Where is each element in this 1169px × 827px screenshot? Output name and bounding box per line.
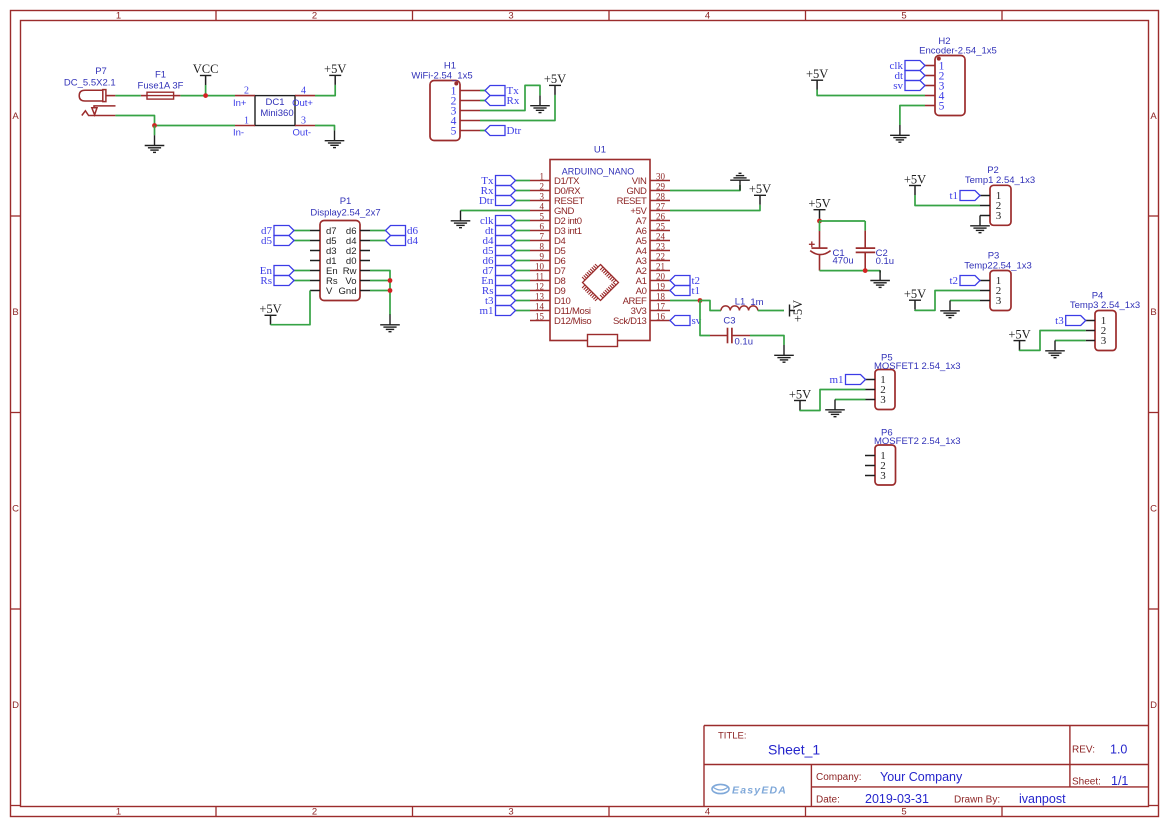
C3 lead left (710, 335, 728, 337)
net flag d7 (483, 265, 516, 277)
svg-text:Encoder-2.54_1x5: Encoder-2.54_1x5 (919, 46, 997, 57)
+5V power at P1 (259, 302, 281, 325)
junction C1 top (817, 219, 822, 224)
wire +5V to P5 pin2 (800, 390, 866, 411)
net flag clk (890, 60, 925, 72)
svg-text:m1: m1 (479, 305, 493, 317)
U1 pin 26 stub (650, 220, 670, 222)
+5V power rotated at L1 (790, 305, 796, 317)
frame tick right (1149, 412, 1159, 414)
wire d7 flag to P1 (294, 230, 310, 232)
U1 body (550, 160, 650, 341)
svg-text:0.1u: 0.1u (735, 337, 754, 348)
svg-text:2: 2 (312, 806, 317, 817)
H2 body (935, 56, 965, 116)
net flag Dtr (479, 195, 516, 207)
wire H1 pin4 to +5V (480, 95, 555, 121)
U1 pin 13 stub (530, 300, 550, 302)
wire P5 pin3 to ground (835, 399, 866, 401)
net flag m1 (829, 374, 865, 386)
U1 pin 11 stub (530, 280, 550, 282)
svg-text:+5V: +5V (791, 300, 805, 322)
svg-text:Gnd: Gnd (339, 286, 357, 297)
net flag En (481, 275, 515, 287)
P1 left pin 4 stub (310, 260, 320, 262)
svg-text:3: 3 (996, 210, 1002, 222)
wire H1 pin3 to ground (480, 85, 540, 110)
wire P4 pin3 to ground (1055, 340, 1086, 342)
net flag En (260, 265, 294, 277)
wire C1 C2 bottom (820, 270, 881, 272)
U1 pin 7 stub (530, 240, 550, 242)
net flag Dtr (485, 125, 522, 137)
U1 pin 22 stub (650, 260, 670, 262)
svg-text:VCC: VCC (193, 62, 219, 76)
H2 pin 2 stub (925, 75, 935, 77)
svg-text:Rx: Rx (507, 95, 520, 107)
F1 pin stub right (174, 95, 181, 97)
wire d6 flag to U1 (516, 260, 531, 262)
svg-text:t3: t3 (1055, 315, 1064, 327)
svg-text:+5V: +5V (806, 67, 828, 81)
P5 body (875, 370, 895, 410)
wire +5V to P1 V pin (271, 291, 311, 325)
wire C1 top lead (819, 221, 821, 231)
svg-text:10: 10 (535, 261, 545, 271)
net flag d6 (483, 255, 516, 267)
svg-text:F1: F1 (155, 70, 166, 81)
DC1 body (255, 96, 295, 126)
net flag t2 (949, 275, 980, 287)
svg-text:+5V: +5V (749, 182, 771, 196)
P6 pin 1 stub (865, 455, 875, 457)
U1 pin 6 stub (530, 230, 550, 232)
svg-text:3: 3 (508, 806, 513, 817)
F1 body (147, 92, 174, 99)
svg-text:REV:: REV: (1072, 745, 1095, 756)
svg-text:A: A (12, 111, 19, 122)
U1 pin 15 stub (530, 320, 550, 322)
svg-text:Rs: Rs (260, 275, 272, 287)
wire P7 sleeve to DC1 In- (115, 116, 235, 126)
C1 lead bottom (819, 255, 821, 271)
net flag d6 (386, 225, 419, 237)
P4 pin 3 stub (1086, 340, 1095, 342)
U1 pin 19 stub (650, 290, 670, 292)
P3 pin 3 stub (980, 300, 990, 302)
P7 switch pin (92, 106, 116, 115)
wire P7 to F1 (115, 95, 140, 97)
svg-text:+5V: +5V (1008, 327, 1030, 341)
wire C1 to C2 top (820, 220, 866, 222)
svg-text:0.1u: 0.1u (876, 256, 895, 267)
ground at H2 pin5 (890, 125, 910, 142)
H2 pin 1 stub (925, 65, 935, 67)
frame tick left (11, 608, 21, 610)
svg-text:DC_5.5X2.1: DC_5.5X2.1 (64, 78, 116, 89)
wire to ground C1C2 (879, 271, 881, 273)
+5V power at P3 (904, 287, 926, 310)
junction P1 Vo (388, 278, 393, 283)
wire F1 to DC1 In+ (180, 95, 235, 97)
wire d7 flag to U1 (516, 270, 531, 272)
svg-text:V: V (326, 286, 333, 297)
wire Tx flag to U1 (516, 180, 531, 182)
U1 pin 28 stub (650, 200, 670, 202)
svg-text:20: 20 (656, 271, 666, 281)
U1 pin 14 stub (530, 310, 550, 312)
U1 pin 24 stub (650, 240, 670, 242)
svg-text:Temp1 2.54_1x3: Temp1 2.54_1x3 (965, 175, 1035, 186)
U1 pin 18 stub (650, 300, 670, 302)
svg-text:12: 12 (535, 281, 544, 291)
svg-text:Company:: Company: (816, 772, 862, 783)
ground at U1 pin29 (flipped) (730, 173, 750, 190)
U1 pin 29 stub (650, 190, 670, 192)
wire Rs flag to P1 (294, 280, 310, 282)
wire dt flag to U1 (516, 230, 531, 232)
wire +5V to C1 node (819, 219, 821, 222)
H1 pin 3 stub (460, 110, 480, 112)
frame tick bottom (412, 807, 414, 817)
wire d5 flag to P1 (294, 240, 310, 242)
svg-text:Sheet_1: Sheet_1 (768, 742, 820, 758)
net flag d5 (483, 245, 516, 257)
frame tick top (805, 11, 807, 21)
ground at C1 C2 (870, 270, 890, 287)
svg-text:28: 28 (656, 191, 666, 201)
P1 left pin 2 stub (310, 240, 320, 242)
H2 pin 4 stub (925, 95, 935, 97)
svg-text:5: 5 (901, 10, 906, 21)
wire Rs flag to U1 (516, 290, 531, 292)
svg-text:t1: t1 (692, 285, 701, 297)
wire to ground (154, 126, 156, 136)
frame tick left (11, 805, 21, 807)
wire node down to C3 (700, 301, 710, 336)
svg-text:ivanpost: ivanpost (1019, 792, 1066, 806)
net flag sv (670, 315, 702, 327)
svg-text:4: 4 (705, 806, 710, 817)
svg-text:1: 1 (244, 115, 249, 126)
svg-text:Display2.54_2x7: Display2.54_2x7 (310, 207, 380, 218)
net flag d4 (386, 235, 419, 247)
svg-text:470u: 470u (833, 256, 854, 267)
P1 right pin stub row 7 (360, 290, 370, 292)
svg-text:DC1: DC1 (265, 97, 284, 108)
U1 pin 17 stub (650, 310, 670, 312)
svg-text:Your Company: Your Company (880, 770, 963, 784)
power flag VCC (193, 62, 219, 85)
svg-text:t2: t2 (949, 275, 958, 287)
svg-text:3: 3 (996, 295, 1002, 307)
wire P1 Rw down (370, 271, 390, 316)
svg-text:26: 26 (656, 211, 666, 221)
ground at P1 (380, 315, 400, 332)
wire +5V to H2 pin4 (817, 90, 925, 96)
svg-text:ARDUINO_NANO: ARDUINO_NANO (562, 166, 635, 176)
wire +5V to P2 pin2 (915, 195, 980, 206)
P5 pin 1 stub (866, 379, 876, 381)
title block (704, 726, 1149, 807)
wire U1 AREF to node (670, 300, 700, 302)
svg-text:D: D (12, 700, 19, 711)
C1 plus sign h (809, 243, 815, 245)
U1 pin 27 stub (650, 210, 670, 212)
P1 body (320, 221, 360, 301)
P1 right pin stub row 1 (360, 230, 370, 232)
wire t3 flag to U1 (516, 300, 531, 302)
C1 plate top (812, 247, 828, 249)
svg-text:Drawn By:: Drawn By: (954, 795, 1000, 806)
frame tick left (11, 215, 21, 217)
net flag d7 (261, 225, 294, 237)
svg-text:MOSFET2 2.54_1x3: MOSFET2 2.54_1x3 (874, 436, 961, 447)
wire P1 Vo (370, 280, 390, 282)
svg-text:C: C (12, 504, 19, 515)
ground at P2 pin3 (970, 216, 990, 233)
svg-text:22: 22 (656, 251, 665, 261)
net flag dt (485, 225, 516, 237)
EasyEDA logo (712, 784, 729, 793)
svg-text:Sheet:: Sheet: (1072, 776, 1101, 787)
P3 body (990, 271, 1011, 311)
junction GND node (152, 123, 157, 128)
svg-text:5: 5 (540, 211, 545, 221)
svg-text:2019-03-31: 2019-03-31 (865, 792, 929, 806)
H1 pin 2 stub (460, 100, 480, 102)
C3 plate left (727, 328, 729, 344)
U1 pin 2 stub (530, 190, 550, 192)
svg-text:9: 9 (540, 251, 545, 261)
P5 pin 3 stub (866, 399, 876, 401)
svg-text:Out-: Out- (293, 128, 311, 139)
wire node to L1 (700, 301, 721, 311)
C2 lead top (864, 231, 866, 248)
svg-text:2: 2 (540, 181, 545, 191)
+5V power at U1 pin27 (749, 182, 771, 205)
wire DC1 Out- to ground (315, 126, 335, 131)
svg-text:3: 3 (301, 115, 306, 126)
svg-text:C3: C3 (723, 316, 735, 327)
wire clk flag to U1 (516, 220, 531, 222)
P1 left pin 5 stub (310, 270, 320, 272)
+5V power at P2 (904, 172, 926, 195)
junction AREF node (698, 298, 703, 303)
U1 pin 23 stub (650, 250, 670, 252)
ground at U1 pin4 (451, 211, 471, 228)
H1 pin1 marker dot (454, 82, 458, 86)
svg-text:2: 2 (244, 85, 249, 96)
wire P1 to d4 flag (370, 240, 386, 242)
svg-text:1m: 1m (750, 297, 763, 308)
svg-text:3: 3 (540, 191, 545, 201)
net flag t3 (485, 295, 516, 307)
svg-text:1: 1 (116, 806, 121, 817)
wire U1 pin27 +5V (670, 205, 760, 211)
+5V power at C1 (808, 197, 830, 220)
wire C3 to ground (750, 336, 784, 346)
P2 pin 2 stub (980, 205, 990, 207)
P2 pin 1 stub (980, 195, 990, 197)
C3 lead right (732, 335, 750, 337)
wire En flag to U1 (516, 280, 531, 282)
svg-text:+5V: +5V (904, 172, 926, 186)
junction C2 bottom (863, 268, 868, 273)
svg-text:m1: m1 (829, 374, 843, 386)
frame tick top (412, 11, 414, 21)
net flag Rs (260, 275, 294, 287)
net flag Tx (485, 85, 519, 97)
wire m1 flag to U1 (516, 310, 531, 312)
svg-text:23: 23 (656, 241, 666, 251)
svg-text:+5V: +5V (789, 387, 811, 401)
frame tick top (1001, 11, 1003, 21)
svg-text:16: 16 (656, 311, 666, 321)
P1 right pin stub row 3 (360, 250, 370, 252)
svg-text:30: 30 (656, 171, 666, 181)
svg-text:1.0: 1.0 (1110, 743, 1127, 757)
svg-text:EasyEDA: EasyEDA (732, 785, 787, 797)
svg-text:MOSFET1 2.54_1x3: MOSFET1 2.54_1x3 (874, 361, 961, 372)
net flag dt (894, 70, 925, 82)
svg-text:TITLE:: TITLE: (718, 731, 747, 742)
U1 pin 16 stub (650, 320, 670, 322)
svg-text:3: 3 (880, 470, 886, 482)
frame tick bottom (215, 807, 217, 817)
frame tick right (1149, 215, 1159, 217)
svg-text:U1: U1 (594, 144, 606, 155)
ground at P5 pin3 (825, 400, 845, 417)
svg-text:P1: P1 (340, 196, 352, 207)
svg-text:4: 4 (301, 85, 306, 96)
+5V power at P4 (1008, 327, 1030, 350)
P2 pin 3 stub (980, 215, 990, 217)
C1 plus sign v (811, 241, 813, 247)
U1 pin 12 stub (530, 290, 550, 292)
U1 pin 1 stub (530, 180, 550, 182)
net flag Rx (485, 95, 520, 107)
svg-text:25: 25 (656, 221, 666, 231)
svg-text:14: 14 (535, 301, 545, 311)
+5V power at DC1 Out+ (324, 62, 346, 85)
U1 pin 9 stub (530, 260, 550, 262)
wire VCC stem (205, 85, 207, 96)
P1 right pin stub row 2 (360, 240, 370, 242)
U1 pin 5 stub (530, 220, 550, 222)
frame tick right (1149, 608, 1159, 610)
H1 pin 1 stub (460, 90, 480, 92)
svg-text:C: C (1150, 504, 1157, 515)
U1 pin 3 stub (530, 200, 550, 202)
net flag d5 (261, 235, 294, 247)
svg-text:29: 29 (656, 181, 666, 191)
svg-text:1/1: 1/1 (1111, 774, 1128, 788)
svg-text:5: 5 (451, 125, 457, 137)
ground at C3 (774, 345, 794, 362)
svg-text:B: B (1150, 307, 1156, 318)
svg-text:7: 7 (540, 231, 545, 241)
wire d5 flag to U1 (516, 250, 531, 252)
svg-text:B: B (12, 307, 18, 318)
svg-text:18: 18 (656, 291, 666, 301)
P1 left pin 7 stub (310, 290, 320, 292)
H1 pin 4 stub (460, 120, 480, 122)
svg-text:P7: P7 (95, 66, 107, 77)
svg-text:A: A (1150, 111, 1157, 122)
H1 pin 5 stub (460, 130, 480, 132)
svg-text:d5: d5 (261, 235, 273, 247)
+5V power at P5 (789, 387, 811, 410)
svg-text:17: 17 (656, 301, 666, 311)
svg-text:L1: L1 (735, 296, 746, 307)
frame tick top (215, 11, 217, 21)
frame tick right (1149, 805, 1159, 807)
P4 pin 1 stub (1086, 320, 1095, 322)
wire H1 pin5 to Dtr flag (480, 130, 485, 132)
svg-text:6: 6 (540, 221, 545, 231)
inductor L1 1m (721, 306, 758, 311)
net flag Tx (481, 175, 515, 187)
ground at H1 pin3 (530, 95, 550, 112)
svg-text:8: 8 (540, 241, 545, 251)
P6 body (875, 445, 896, 485)
net flag m1 (479, 305, 515, 317)
svg-text:Dtr: Dtr (479, 195, 494, 207)
P2 body (990, 185, 1011, 225)
DC1 pin 3 stub (295, 125, 315, 127)
svg-text:15: 15 (535, 311, 545, 321)
U1 pin 4 stub (530, 210, 550, 212)
svg-text:Mini360: Mini360 (260, 108, 293, 119)
svg-text:+5V: +5V (259, 302, 281, 316)
frame tick bottom (1001, 807, 1003, 817)
U1 pin 30 stub (650, 180, 670, 182)
svg-text:13: 13 (535, 291, 545, 301)
P1 right pin stub row 5 (360, 270, 370, 272)
svg-text:Dtr: Dtr (507, 125, 522, 137)
svg-text:D: D (1150, 700, 1157, 711)
junction VCC node (203, 93, 208, 98)
ground at P7 sleeve (145, 135, 165, 152)
wire H1 pin2 to Rx flag (480, 100, 485, 102)
wire H2 pin5 to ground (900, 106, 925, 126)
P5 pin 2 stub (866, 389, 876, 391)
C2 plate top (856, 247, 876, 249)
svg-text:1: 1 (116, 10, 121, 21)
net flag t1 (949, 190, 980, 202)
P6 pin 2 stub (865, 465, 875, 467)
svg-text:11: 11 (535, 271, 544, 281)
svg-text:3: 3 (1101, 335, 1107, 347)
svg-text:Temp22.54_1x3: Temp22.54_1x3 (964, 261, 1032, 272)
U1 pin 20 stub (650, 280, 670, 282)
P1 left pin 1 stub (310, 230, 320, 232)
ground at DC1 Out- (325, 130, 345, 147)
wire DC1 Out+ to +5V (315, 85, 335, 96)
wire +5V to P4 pin2 (1020, 331, 1086, 351)
P4 body (1095, 311, 1116, 351)
junction P1 Gnd (388, 288, 393, 293)
U1 pin 8 stub (530, 250, 550, 252)
DC1 pin 2 stub (235, 95, 255, 97)
wire En flag to P1 (294, 270, 310, 272)
svg-text:3: 3 (508, 10, 513, 21)
svg-text:d4: d4 (407, 235, 419, 247)
wire Dtr flag to U1 (516, 200, 531, 202)
net flag Rx (481, 185, 516, 197)
P7 sleeve pin (82, 111, 116, 116)
